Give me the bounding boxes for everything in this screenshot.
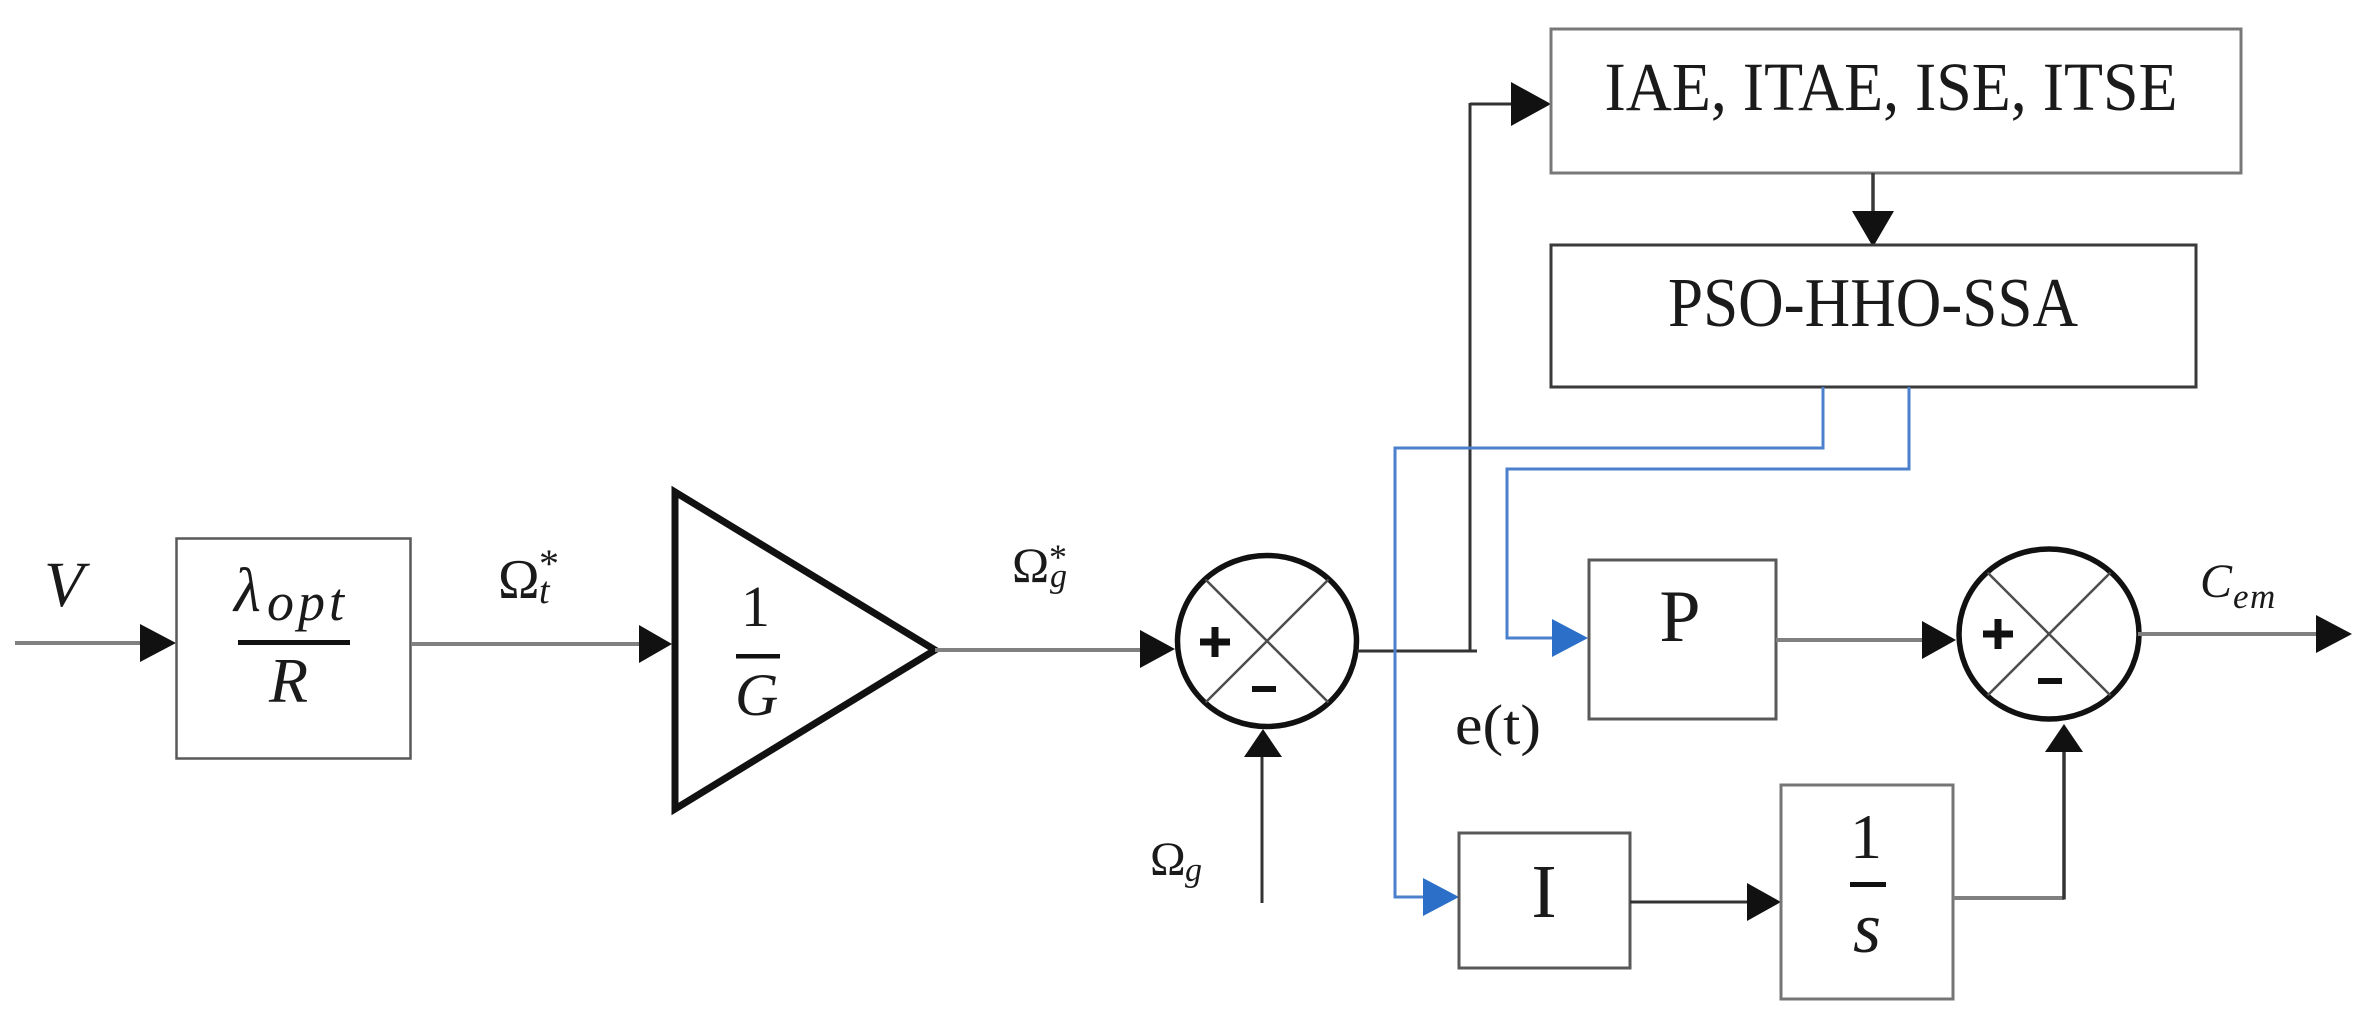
- wire lambda block to gain: [411, 625, 672, 663]
- svg-text:I: I: [1531, 850, 1556, 934]
- wire P to summing junction S2: [1776, 621, 1956, 659]
- wire blue PSO to I block: [1395, 387, 1823, 916]
- summing junction S2: [1959, 549, 2139, 719]
- block PSO-HHO-SSA: [1551, 245, 2196, 387]
- wire 1/s to S2 bottom: [1953, 724, 2083, 900]
- block P: [1589, 560, 1776, 719]
- summing junction S1: [1178, 556, 1357, 727]
- svg-text:G: G: [735, 662, 778, 728]
- label C_em: [2200, 555, 2277, 616]
- label Omega_g*: [1012, 537, 1067, 595]
- wire S1 output to e(t) node and up to IAE box: [1357, 82, 1551, 651]
- svg-text:e(t): e(t): [1455, 694, 1541, 757]
- svg-text:1: 1: [741, 574, 770, 639]
- block 1/s integrator: [1781, 785, 1953, 999]
- svg-text:g: g: [1185, 852, 1202, 889]
- svg-text:λ: λ: [232, 557, 261, 625]
- gain block 1/G: [675, 492, 935, 809]
- wire S2 output C_em: [2138, 615, 2352, 653]
- svg-text:t: t: [539, 570, 551, 612]
- block IAE ITAE ISE ITSE: [1551, 29, 2241, 173]
- svg-text:Ω: Ω: [1150, 833, 1186, 886]
- svg-text:PSO-HHO-SSA: PSO-HHO-SSA: [1668, 265, 2078, 342]
- block I: [1459, 833, 1630, 968]
- wire IAE box to PSO box: [1852, 173, 1894, 247]
- svg-text:P: P: [1659, 576, 1700, 658]
- svg-text:V: V: [44, 549, 90, 621]
- svg-text:Ω: Ω: [498, 549, 540, 611]
- svg-text:em: em: [2233, 577, 2277, 616]
- svg-text:opt: opt: [267, 572, 348, 632]
- label Omega_t*: [498, 541, 559, 612]
- svg-text:IAE, ITAE, ISE, ITSE: IAE, ITAE, ISE, ITSE: [1605, 49, 2178, 125]
- svg-text:1: 1: [1850, 801, 1882, 872]
- label Omega_g: [1150, 833, 1202, 889]
- block lambda_opt/R: [177, 539, 411, 759]
- wire gain to summing junction S1: [935, 630, 1175, 668]
- wire blue PSO to P block: [1507, 387, 1909, 657]
- svg-text:C: C: [2200, 555, 2233, 608]
- svg-text:g: g: [1050, 558, 1067, 595]
- svg-text:s: s: [1853, 888, 1881, 968]
- wire V input: [15, 624, 176, 662]
- svg-text:R: R: [268, 645, 308, 716]
- svg-text:Ω: Ω: [1012, 537, 1049, 593]
- wire I to integrator 1/s: [1630, 883, 1781, 921]
- wire Omega_g feedback into S1 bottom: [1244, 729, 1282, 903]
